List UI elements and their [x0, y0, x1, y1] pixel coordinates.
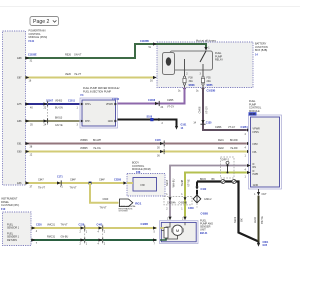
svg-text:F10: F10: [1, 208, 6, 211]
svg-text:G101: G101: [181, 123, 188, 126]
svg-text:C1008: C1008: [148, 99, 156, 102]
connector C1007 dashed link: [47, 100, 49, 125]
svg-text:C4354A: C4354A: [167, 201, 176, 204]
svg-text:30A: 30A: [189, 80, 194, 83]
svg-text:F38: F38: [136, 171, 141, 174]
offpage connector RG1: [119, 199, 142, 213]
svg-text:E60: E60: [17, 151, 22, 154]
module FPDM label: [81, 87, 120, 97]
svg-text:BN-WH: BN-WH: [93, 139, 101, 142]
svg-text:VT-GY: VT-GY: [167, 106, 175, 109]
svg-text:464B: 464B: [249, 112, 255, 116]
svg-text:VE26: VE26: [65, 73, 72, 76]
svg-text:FPSS: FPSS: [253, 131, 260, 134]
module BCM box: [127, 174, 165, 197]
svg-text:C220: C220: [36, 224, 42, 227]
svg-text:E61: E61: [17, 143, 22, 146]
svg-text:TN-VT: TN-VT: [100, 207, 108, 210]
svg-text:F141: F141: [29, 40, 35, 43]
svg-text:F38: F38: [141, 184, 146, 187]
svg-text:S108: S108: [147, 115, 153, 118]
svg-text:C1035B: C1035B: [207, 90, 216, 93]
svg-text:RE26: RE26: [65, 53, 72, 56]
svg-text:C84F: C84F: [103, 198, 109, 201]
ground symbol GND-2: [193, 195, 212, 209]
svg-text:VT-GY: VT-GY: [228, 126, 236, 129]
fuel pump motor: [166, 222, 185, 239]
wire violet CM05 FPDM to fuse F38: [112, 88, 185, 110]
svg-text:DIFF-2: DIFF-2: [222, 158, 230, 161]
svg-text:CM05: CM05: [167, 99, 174, 102]
wire yellow IF/PWB to fuel pump sender: [180, 171, 251, 220]
module BJB box: [157, 38, 253, 87]
svg-text:YE-RD: YE-RD: [230, 147, 238, 150]
fuel level sender resistor: [160, 222, 170, 240]
module BCM label: [132, 162, 151, 175]
svg-text:GN-VT: GN-VT: [74, 53, 82, 56]
svg-text:CM06: CM06: [198, 106, 202, 113]
relay fuel pump: [163, 47, 224, 76]
fuse F55: [201, 70, 213, 88]
wire maroon CM06 fuse F55 to FPCM VPWR: [193, 88, 250, 132]
module FPDM box: [80, 98, 118, 128]
svg-text:GND: GND: [253, 184, 259, 187]
svg-text:E87: E87: [17, 77, 22, 80]
wire black BK15 ground link: [195, 178, 258, 242]
module PCM box: [3, 31, 26, 185]
svg-text:C847: C847: [38, 179, 44, 182]
svg-text:C228: C228: [79, 224, 85, 227]
wire green RMC31 IPC to fuel pump: [31, 225, 157, 246]
svg-text:YE-VT: YE-VT: [74, 73, 82, 76]
svg-text:C442: C442: [201, 188, 207, 191]
page selector dropdown: [30, 17, 59, 26]
wire green inside BJB to relay: [157, 44, 208, 51]
wire olive BK913 PCM to FPDM: [25, 116, 80, 127]
svg-text:BK913: BK913: [55, 116, 63, 119]
svg-text:SB55: SB55: [207, 84, 214, 87]
svg-text:GND-2: GND-2: [204, 198, 212, 201]
svg-text:C135: C135: [206, 122, 212, 125]
module BJB label: [255, 43, 268, 57]
svg-text:BK15: BK15: [200, 178, 207, 181]
svg-text:VMC31: VMC31: [47, 224, 56, 227]
svg-text:BU-GN: BU-GN: [55, 106, 63, 109]
svg-text:TE4B: TE4B: [180, 180, 184, 187]
svg-text:VDB05: VDB05: [80, 147, 88, 150]
svg-text:CM06: CM06: [215, 126, 222, 129]
svg-text:CLUSTER (IPC): CLUSTER (IPC): [1, 204, 19, 207]
svg-text:VT-GY: VT-GY: [205, 106, 209, 114]
module FPCM label: [249, 100, 262, 116]
connector circles on BK15: [221, 180, 236, 184]
svg-text:C442: C442: [97, 224, 103, 227]
svg-text:20A: 20A: [207, 80, 212, 83]
svg-text:C2280: C2280: [114, 179, 122, 182]
svg-text:M: M: [176, 228, 179, 233]
wire brown VDB06 PCM to FPCM FPM: [25, 139, 251, 150]
svg-text:GN-YE: GN-YE: [55, 124, 63, 127]
svg-text:E75: E75: [17, 103, 22, 106]
svg-text:C145: C145: [155, 139, 161, 142]
wire yellow VMC31 IPC to fuel pump: [31, 223, 157, 234]
wire yellow VDB05 PCM to FPCM FPL: [25, 140, 251, 157]
BJB bottom connector arrows: [178, 88, 216, 93]
svg-text:YE-OG: YE-OG: [93, 147, 101, 150]
svg-text:C84F: C84F: [99, 179, 105, 182]
svg-text:SENSOR 1: SENSOR 1: [7, 226, 20, 229]
svg-text:RMC31: RMC31: [47, 236, 56, 239]
svg-text:FE02: FE02: [218, 147, 224, 150]
PCM pin labels: [17, 57, 22, 185]
svg-text:G05: G05: [263, 244, 268, 247]
module IPC label: [1, 198, 19, 212]
svg-text:C430: C430: [188, 207, 194, 210]
wire yellow branch to RG1: [90, 183, 119, 210]
svg-text:MODULE (BCM): MODULE (BCM): [132, 168, 151, 171]
inline connector C4354 to fuel pump: [164, 193, 194, 210]
svg-text:LE02: LE02: [253, 216, 257, 223]
svg-text:SYSTEM: SYSTEM: [119, 211, 128, 213]
module fuel pump label: [200, 220, 213, 236]
svg-text:GN-BU: GN-BU: [61, 236, 69, 239]
module fuel pump and sender box: [160, 212, 209, 243]
svg-text:EM-41: EM-41: [200, 232, 208, 235]
svg-text:WH-BU: WH-BU: [172, 179, 176, 188]
svg-text:GND: GND: [108, 120, 114, 123]
svg-text:TN-VT: TN-VT: [61, 224, 69, 227]
svg-text:C1011: C1011: [68, 99, 76, 102]
svg-text:C430B: C430B: [141, 223, 149, 226]
svg-text:C4354B: C4354B: [179, 201, 188, 204]
svg-text:BOX (BJB): BOX (BJB): [255, 49, 267, 52]
svg-text:C1010: C1010: [112, 98, 120, 101]
svg-text:BK-YE: BK-YE: [260, 216, 264, 224]
svg-text:OUT: OUT: [262, 193, 268, 196]
module FPCM box: [244, 115, 281, 189]
svg-text:MODULE (PCM): MODULE (PCM): [29, 36, 48, 39]
svg-text:E98: E98: [17, 57, 22, 60]
page top rule: [0, 6, 300, 8]
svg-text:Hot at all times: Hot at all times: [196, 38, 216, 42]
svg-text:E66: E66: [17, 120, 22, 123]
wire yellow C847 TN-VT PCM to BCM: [25, 176, 131, 190]
wire VE26 YE-VT yellow PCM to BJB: [25, 73, 157, 83]
svg-text:Page 2: Page 2: [33, 19, 50, 25]
svg-text:FUEL INJECTION PUMP: FUEL INJECTION PUMP: [83, 90, 111, 93]
svg-text:SE15: SE15: [165, 179, 169, 186]
svg-text:PWB: PWB: [253, 173, 259, 176]
svg-text:E36: E36: [17, 182, 22, 185]
svg-text:VT-YE: VT-YE: [187, 179, 191, 187]
ground G05: [257, 241, 269, 247]
svg-text:RETURN: RETURN: [7, 239, 17, 242]
svg-text:C1035E: C1035E: [28, 54, 37, 57]
wire olive LE02 FPCM GND to ground: [253, 189, 267, 242]
svg-text:FPP+: FPP+: [85, 103, 92, 106]
component DIFF-2: [221, 157, 235, 178]
svg-text:C1035B: C1035B: [140, 40, 149, 43]
svg-text:VPWR: VPWR: [106, 103, 113, 106]
svg-text:FPP-: FPP-: [85, 120, 91, 123]
svg-text:BK: BK: [240, 218, 244, 222]
svg-text:TN-VT: TN-VT: [70, 187, 78, 190]
wire RE26 GN-VT green PCM to BJB: [25, 40, 157, 62]
svg-text:VDB06: VDB06: [80, 139, 88, 142]
svg-text:BN-RD: BN-RD: [230, 139, 238, 142]
wire navy VE453 PCM to FPDM: [25, 99, 80, 109]
wire black FPDM GND to ground G101: [118, 115, 188, 130]
module IPC box: [3, 212, 32, 246]
module PCM label: [29, 30, 48, 44]
svg-text:C1007: C1007: [46, 99, 54, 102]
svg-text:VE453: VE453: [55, 100, 63, 103]
svg-text:C84F: C84F: [70, 179, 76, 182]
svg-text:FPL: FPL: [253, 151, 258, 154]
svg-text:C430B: C430B: [201, 212, 209, 215]
svg-text:RN: RN: [253, 166, 257, 169]
svg-text:C171: C171: [57, 176, 63, 179]
svg-text:SE02: SE02: [233, 216, 237, 223]
svg-text:FE01: FE01: [218, 139, 224, 142]
svg-text:RELAY: RELAY: [215, 59, 223, 62]
wire gray-violet IF/RN to fuel pump sender: [165, 164, 251, 220]
fuse F38: [183, 70, 195, 88]
svg-text:TN-VT: TN-VT: [38, 187, 46, 190]
svg-text:SB38: SB38: [189, 84, 196, 87]
svg-text:BK: BK: [212, 178, 216, 181]
svg-text:RG1: RG1: [135, 201, 142, 205]
svg-text:FPM: FPM: [253, 143, 258, 146]
svg-text:UNIT: UNIT: [200, 228, 206, 231]
